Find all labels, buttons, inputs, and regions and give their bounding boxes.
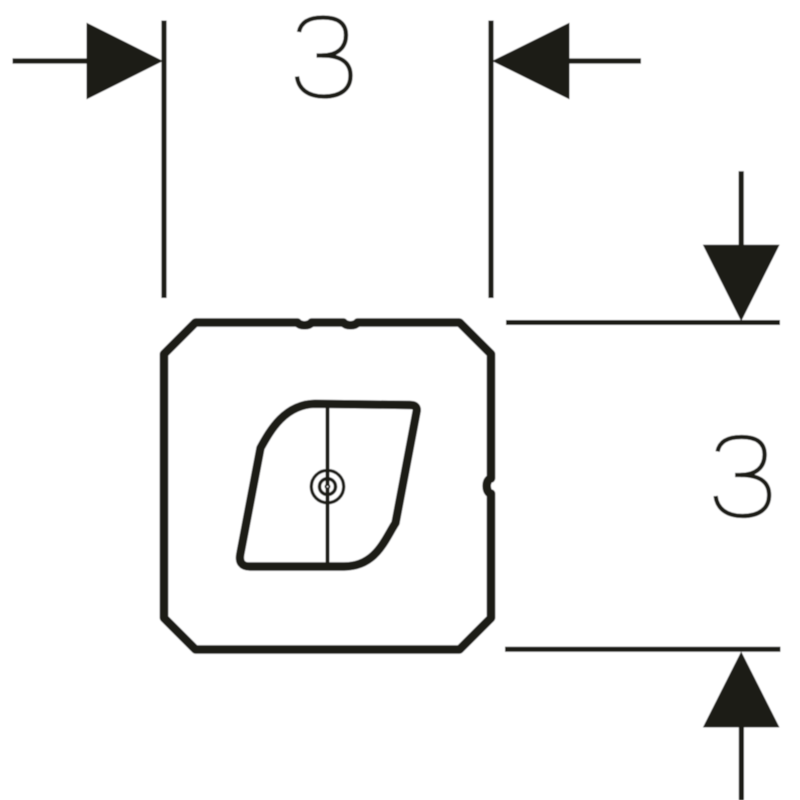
- arrowhead pointing up: [703, 652, 780, 728]
- dimension leader top (vertical): [739, 171, 744, 247]
- centre line vertical: [326, 401, 330, 570]
- dimension leader right: [569, 58, 641, 63]
- inner plate outline: [240, 404, 417, 567]
- dimension text "3" vertical: [716, 437, 770, 516]
- dimension leader bottom (vertical): [739, 727, 744, 800]
- dimension leader left: [13, 58, 89, 63]
- extension line top-right (y=322.5): [506, 320, 780, 325]
- extension line bottom-right (y=649.2): [505, 647, 780, 652]
- part outline: chamfered square with detent notches: [164, 323, 491, 650]
- arrowhead pointing left: [492, 23, 570, 100]
- extension line right (x=491): [488, 21, 493, 299]
- centre mark middle ring: [320, 479, 336, 495]
- centre mark outer ring: [311, 470, 343, 502]
- dimension text "3" horizontal: [297, 18, 351, 97]
- arrowhead pointing right: [87, 23, 164, 100]
- extension line left (x=164): [161, 21, 166, 299]
- arrowhead pointing down: [703, 245, 780, 321]
- centre mark inner dot: [326, 485, 330, 489]
